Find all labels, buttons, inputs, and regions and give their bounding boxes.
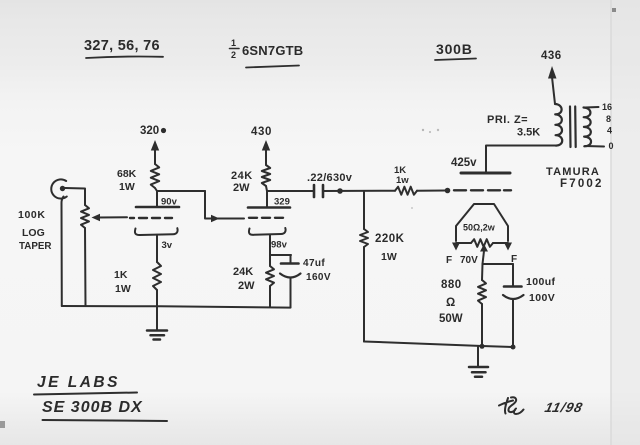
capacitor .22/630V (coupling) — [307, 172, 353, 197]
ground bus (output stage) — [364, 342, 516, 350]
resistor 68K 1W (V1a plate load) — [117, 164, 159, 193]
secondary taps 16 8 4 0 — [585, 102, 614, 151]
label 327,56,76 — [84, 38, 163, 58]
ground symbol (output stage) — [469, 347, 488, 377]
svg-text:1K: 1K — [114, 269, 128, 281]
svg-text:430: 430 — [251, 126, 272, 138]
svg-text:8: 8 — [606, 114, 611, 124]
300B filament — [456, 204, 508, 243]
svg-text:2W: 2W — [238, 280, 255, 292]
hum pot 50ohm 2W — [463, 223, 496, 265]
svg-text:425v: 425v — [451, 157, 477, 169]
tube label 300B — [435, 41, 476, 60]
svg-text:PRI. Z=: PRI. Z= — [487, 114, 528, 126]
wire jack tip to pot top — [65, 188, 85, 205]
svg-text:1W: 1W — [381, 251, 397, 263]
svg-text:436: 436 — [541, 50, 562, 62]
wire V1b plate node to coupling cap — [266, 186, 314, 191]
svg-text:50W: 50W — [439, 313, 463, 325]
svg-text:.22/630v: .22/630v — [307, 172, 353, 184]
svg-text:98v: 98v — [271, 240, 288, 251]
node 430 supply arrow — [251, 126, 272, 165]
input jack — [51, 179, 67, 198]
svg-text:3.5K: 3.5K — [517, 127, 540, 139]
title JE LABS — [34, 374, 137, 395]
svg-text:880: 880 — [441, 279, 462, 291]
svg-text:TAMURA: TAMURA — [546, 166, 600, 178]
svg-text:100V: 100V — [529, 292, 555, 304]
transformer primary — [555, 104, 562, 146]
svg-text:50Ω,2w: 50Ω,2w — [463, 223, 496, 233]
wire grid stopper to 300B grid — [417, 188, 450, 194]
filament F terminals — [446, 243, 517, 267]
svg-text:24K: 24K — [233, 266, 253, 278]
wire jack shell down — [62, 197, 64, 307]
triode V1b cathode — [249, 228, 286, 266]
svg-text:320: 320 — [140, 125, 159, 137]
svg-text:6SN7GTB: 6SN7GTB — [242, 43, 303, 58]
svg-text:11/98: 11/98 — [543, 400, 584, 415]
svg-text:3v: 3v — [162, 240, 173, 251]
svg-text:160V: 160V — [306, 272, 331, 283]
svg-text:F7002: F7002 — [560, 178, 604, 190]
label PRI. Z= 3.5K — [487, 114, 540, 139]
svg-text:100K: 100K — [18, 209, 46, 221]
capacitor 47uf 160V (cathode bypass) — [270, 255, 331, 308]
tube label 1/2 6SN7GTB — [230, 38, 304, 68]
svg-text:0: 0 — [609, 141, 614, 151]
wire coupling cap to grid stopper — [323, 188, 395, 194]
ground bus (input stage) — [62, 306, 290, 308]
triode V1a grid (dashed) — [130, 217, 172, 219]
potentiometer 100K LOG TAPER — [18, 205, 127, 306]
svg-text:JE LABS: JE LABS — [37, 374, 120, 391]
svg-text:LOG: LOG — [22, 227, 45, 239]
svg-text:2: 2 — [231, 50, 236, 60]
resistor 1K 1W (V1a cathode) — [114, 262, 161, 307]
svg-text:100uf: 100uf — [526, 276, 556, 288]
svg-text:24K: 24K — [231, 170, 253, 182]
svg-text:47uf: 47uf — [303, 258, 325, 269]
resistor 24K 2W (V1b plate load) — [231, 165, 270, 194]
svg-text:329: 329 — [274, 197, 290, 208]
svg-text:F: F — [446, 255, 452, 266]
transformer core — [570, 107, 576, 148]
svg-text:1: 1 — [231, 38, 236, 48]
svg-text:327, 56, 76: 327, 56, 76 — [84, 38, 160, 54]
svg-text:1W: 1W — [119, 181, 135, 193]
svg-text:SE 300B DX: SE 300B DX — [42, 399, 143, 416]
wire 300B plate to transformer primary — [486, 146, 556, 174]
label TAMURA F7002 — [546, 166, 604, 190]
svg-text:220K: 220K — [375, 233, 405, 245]
triode 300B plate — [461, 172, 510, 175]
svg-text:2W: 2W — [233, 182, 250, 194]
svg-text:70V: 70V — [460, 255, 478, 266]
title SE 300B DX — [42, 399, 167, 421]
wire V1a plate node to V1b grid — [155, 188, 244, 222]
svg-text:68K: 68K — [117, 168, 137, 180]
triode V1a cathode — [135, 228, 178, 262]
svg-text:4: 4 — [607, 126, 612, 136]
node 320 supply arrow — [140, 125, 166, 164]
arrow to node 436 — [548, 66, 557, 104]
ground symbol (input stage) — [147, 307, 167, 340]
triode V1b plate — [248, 191, 290, 208]
svg-text:16: 16 — [602, 102, 612, 112]
svg-text:TAPER: TAPER — [19, 241, 51, 252]
triode 300B grid (dashed) — [454, 189, 511, 191]
transformer secondary — [584, 108, 592, 147]
triode V1b grid (dashed) — [249, 217, 283, 219]
signature and date 11/98 — [499, 397, 585, 415]
capacitor 100uf 100V (cathode bypass) — [483, 264, 556, 347]
svg-text:1w: 1w — [396, 175, 409, 186]
svg-text:300B: 300B — [436, 41, 473, 57]
resistor 880 ohm 50W (cathode bias) — [439, 264, 486, 347]
resistor 24K 2W (V1b cathode) — [233, 266, 274, 307]
triode V1a plate — [136, 191, 179, 207]
svg-text:Ω: Ω — [446, 297, 455, 309]
resistor 1K 1W (300B grid stopper) — [394, 165, 417, 195]
svg-text:1W: 1W — [115, 283, 131, 295]
resistor 220K 1W (grid leak) — [360, 191, 405, 342]
